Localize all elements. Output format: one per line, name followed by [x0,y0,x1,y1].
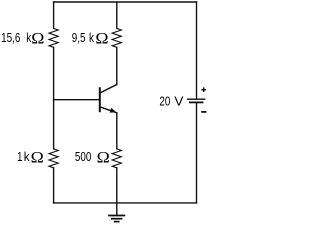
transistor Q1 collector stroke [100,85,117,94]
wire base horizontal [54,99,100,101]
battery minus sign [201,111,206,113]
resistor R4 500 Ohm [112,149,121,168]
wire emitter vertical [116,113,118,149]
ground bar 1 [108,215,125,217]
svg-text:Ω: Ω [95,29,108,47]
ground bar 3 [114,221,120,223]
transistor Q1 emitter stroke [100,107,117,113]
wire right branch upper [196,2,198,99]
wire middle branch top [116,2,118,28]
wire emitter lower [116,168,118,203]
svg-text:k: k [24,150,31,165]
wire left branch middle [53,47,55,148]
ground stem [116,203,118,215]
label 20 V [159,94,183,109]
label 15,6 kOhm [1,29,44,47]
svg-text:9,5: 9,5 [72,32,86,45]
battery V1 plate positive [187,98,206,100]
ground bar 2 [111,218,123,220]
svg-text:20: 20 [159,95,170,108]
label 9,5 kOhm [72,29,109,47]
svg-text:1: 1 [17,151,22,164]
resistor R2 9,5 kOhm [112,28,121,47]
battery plus sign [201,87,206,92]
label 1 kOhm [17,148,44,166]
transistor Q1 emitter arrowhead [110,108,117,113]
battery V1 plate negative [189,101,203,103]
svg-text:Ω: Ω [31,29,44,47]
wire top rail [54,1,197,3]
wire bottom rail [54,202,197,204]
resistor R3 1 kOhm [49,149,58,168]
svg-text:15,6: 15,6 [1,32,20,45]
svg-text:500: 500 [75,151,91,164]
svg-text:V: V [174,94,183,108]
transistor Q1 base bar [99,88,101,111]
label 500 Ohm [75,148,110,166]
wire collector vertical [116,47,118,84]
svg-text:Ω: Ω [31,148,44,166]
wire left branch lower [53,168,55,203]
wire left branch upper [53,2,55,28]
svg-text:Ω: Ω [97,148,110,166]
svg-text:k: k [89,32,94,45]
resistor R1 15,6 kOhm [49,28,58,47]
wire right branch lower [196,102,198,202]
